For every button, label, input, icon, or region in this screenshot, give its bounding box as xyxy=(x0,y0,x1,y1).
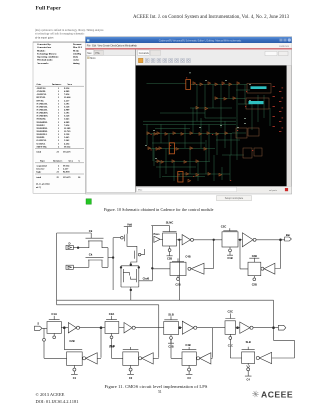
latch U20 xyxy=(182,352,196,366)
svg-text:Type: Type xyxy=(40,160,45,163)
clock port U16 xyxy=(71,365,78,374)
node row2 a xyxy=(100,327,102,329)
clock label C1 xyxy=(73,376,77,380)
clock label C3 xyxy=(187,376,191,380)
clock port U12 xyxy=(168,335,174,344)
svg-text:st technology cell info for ma: st technology cell info for mapping sche… xyxy=(35,32,85,35)
latch U18 xyxy=(123,352,139,366)
transistor M2 pass gate xyxy=(86,257,104,267)
wire U20 out up xyxy=(171,339,182,358)
svg-text:ACEEE: ACEEE xyxy=(261,389,293,399)
wire U1 out down xyxy=(178,240,180,300)
svg-text:total: total xyxy=(37,151,42,154)
svg-text:Gate: Gate xyxy=(37,83,42,86)
transistor M6 cross right xyxy=(136,268,138,283)
clock port U6 xyxy=(253,276,256,281)
svg-text:Figure. 10 Schematic obtained: Figure. 10 Schematic obtained in Cadence… xyxy=(104,207,214,212)
inverter U2 xyxy=(182,235,193,245)
wire Ck gate stem xyxy=(90,233,92,238)
wire cross coupling xyxy=(123,272,136,279)
block label C2C xyxy=(221,224,227,228)
svg-text:Full Paper: Full Paper xyxy=(36,6,62,12)
clock label C2 xyxy=(129,376,133,380)
latch U6 xyxy=(248,262,261,276)
svg-text:C1: C1 xyxy=(73,376,77,380)
inverter U19 xyxy=(139,353,154,364)
svg-text:SLB: SLB xyxy=(110,344,115,348)
svg-text:Cadence(R) Virtuoso(R) Schemat: Cadence(R) Virtuoso(R) Schematic Editor … xyxy=(159,40,242,43)
block label C1A xyxy=(51,312,57,316)
clock port U14 xyxy=(229,334,232,339)
svg-text:ACEEE Int. J. on Control Syste: ACEEE Int. J. on Control System and Inst… xyxy=(133,15,290,20)
svg-text:SLB: SLB xyxy=(168,313,174,317)
svg-text:Area: Area xyxy=(68,160,74,163)
net label C2B2 xyxy=(69,339,74,343)
clock port U10 xyxy=(110,333,113,338)
svg-text:© 2013 ACEEE: © 2013 ACEEE xyxy=(36,392,65,397)
wire U17 in xyxy=(97,357,101,359)
transistor M5 cross left xyxy=(121,268,123,283)
wire U15 to output xyxy=(253,327,278,329)
wire M3 gate xyxy=(113,237,120,239)
svg-text:D: D xyxy=(68,242,70,246)
svg-text:C3: C3 xyxy=(187,376,191,380)
gate bubble M4 xyxy=(138,253,141,256)
clock port U3 xyxy=(227,247,233,255)
svg-text:Bar: Bar xyxy=(286,233,290,237)
svg-text:39.114: 39.114 xyxy=(64,145,71,148)
inverter U9 xyxy=(68,323,79,333)
node mid row1 xyxy=(213,239,215,241)
svg-text:total: total xyxy=(37,176,42,179)
clock port U8 xyxy=(53,333,56,338)
wire top rail to U1 xyxy=(151,226,169,232)
svg-text:C2C: C2C xyxy=(221,224,227,228)
wire U12 to U13 xyxy=(178,327,182,329)
wire right rail CkB xyxy=(139,226,153,281)
input pin Pass xyxy=(154,236,160,242)
svg-text:timing: timing xyxy=(73,62,80,65)
wire bus B xyxy=(57,305,159,358)
node output row1 xyxy=(280,239,282,241)
svg-text:logic: logic xyxy=(37,171,42,174)
block label SLNC xyxy=(166,221,174,225)
svg-text:Pass: Pass xyxy=(153,232,160,236)
latch U10 xyxy=(105,322,119,334)
svg-text:C2C: C2C xyxy=(227,310,233,314)
node U1 out xyxy=(178,239,180,241)
block label C2C2 xyxy=(227,310,233,314)
block label C3B xyxy=(252,254,257,258)
node cross right xyxy=(138,267,140,269)
clock port U20 xyxy=(186,365,193,374)
pin label S xyxy=(37,321,39,325)
latch U1 xyxy=(163,233,177,246)
svg-text:Area mode:: Area mode: xyxy=(37,62,49,65)
node U3 out xyxy=(239,239,241,241)
clock port U1 xyxy=(167,246,173,256)
node junction D xyxy=(77,247,79,249)
input pin E xyxy=(66,265,73,269)
node storage junction xyxy=(130,264,132,266)
wire E to M2 xyxy=(73,266,89,268)
svg-text:ui_re_pt_time: ui_re_pt_time xyxy=(36,182,50,185)
node label CkB xyxy=(89,253,93,257)
output pin Bar xyxy=(285,237,292,241)
clock bar U16 xyxy=(64,349,82,351)
svg-text:C2: C2 xyxy=(129,376,133,380)
latch U16 xyxy=(67,352,83,366)
clock bar U14 xyxy=(225,314,235,319)
svg-text:C2A: C2A xyxy=(109,312,115,316)
clock bar U12 xyxy=(164,316,177,320)
svg-text:C2B: C2B xyxy=(167,257,172,261)
svg-text:Comands: Comands xyxy=(139,53,150,55)
inverter U15 xyxy=(240,322,253,333)
latch U7L xyxy=(170,262,186,275)
wire M1 M2 join xyxy=(102,248,113,268)
clock label C4 xyxy=(247,378,251,382)
wire M3 drain xyxy=(127,242,137,250)
wire U4 to output xyxy=(256,239,285,241)
wire U7L to latch xyxy=(152,268,170,270)
clock label C2B9 xyxy=(175,282,180,286)
gate bubble M3 xyxy=(121,236,124,239)
clock bar U6 xyxy=(249,258,259,262)
inverter U17 xyxy=(83,353,98,364)
svg-text:cadence: cadence xyxy=(279,44,290,48)
svg-text:DOI: 01.IJCSI.4.2.1181: DOI: 01.IJCSI.4.2.1181 xyxy=(36,399,79,404)
svg-text:S: S xyxy=(37,321,39,325)
svg-text:C4: C4 xyxy=(247,378,251,382)
clock label C1B2 xyxy=(109,344,114,348)
clock label C1C xyxy=(228,343,233,347)
clock port U7L xyxy=(177,276,180,281)
transistor M3 pmos xyxy=(125,234,127,242)
clock port U18 xyxy=(127,365,134,374)
node feedback junction xyxy=(151,267,153,269)
svg-text:ui-?[: ui-?[ xyxy=(36,186,41,189)
wire tap to row2 xyxy=(43,328,45,338)
output pin Q xyxy=(278,325,285,330)
svg-text:135.471: 135.471 xyxy=(63,176,71,179)
clock label C2B8 xyxy=(252,283,257,287)
svg-text:sel parts: sel parts xyxy=(269,189,277,192)
wire U6 to node xyxy=(240,240,248,269)
svg-text:Edit: Edit xyxy=(92,45,96,48)
latch U3 xyxy=(222,232,238,247)
power Vdd bar xyxy=(124,227,132,234)
pin label Pass xyxy=(153,232,160,236)
svg-text:C4B: C4B xyxy=(185,343,190,347)
svg-text:Ck: Ck xyxy=(89,229,93,233)
wire U9 to U10 xyxy=(80,327,105,329)
svg-text:C2B: C2B xyxy=(175,282,180,286)
wire D to M1 xyxy=(73,247,89,249)
wire S to U8 xyxy=(42,327,47,329)
latch U8 xyxy=(47,322,61,334)
wire cross pair top xyxy=(121,265,139,268)
inverter U21 xyxy=(197,353,211,364)
svg-text:SLNC: SLNC xyxy=(166,221,174,225)
wire row2 feedback hook xyxy=(272,328,295,358)
clock port U22 xyxy=(245,363,252,376)
svg-text:C4B: C4B xyxy=(185,254,190,258)
node cross bottom xyxy=(130,289,132,291)
svg-text:Instances: Instances xyxy=(52,83,61,86)
input pin S xyxy=(35,326,43,330)
node cross left xyxy=(120,267,122,269)
svg-text:SDFFTXL: SDFFTXL xyxy=(37,145,48,148)
clock label C2B3 xyxy=(168,345,173,349)
clock bar U18 xyxy=(123,347,139,350)
wire U3 to U4 xyxy=(238,239,242,241)
block label C2A xyxy=(109,312,115,316)
svg-text:SLB: SLB xyxy=(246,340,251,344)
inverter U4 xyxy=(242,233,256,247)
svg-text:Ck: Ck xyxy=(89,253,93,257)
wire U21 in xyxy=(211,357,213,359)
pin label Bar xyxy=(286,233,290,237)
latch U22 xyxy=(242,352,255,364)
net label SLB3 xyxy=(246,340,251,344)
svg-text:Help: Help xyxy=(132,46,137,48)
clock bar U20 xyxy=(182,347,196,350)
svg-text:Vdd: Vdd xyxy=(127,222,132,226)
inverter U13 xyxy=(182,321,197,334)
input pin D xyxy=(66,245,73,249)
wire U11 to U12 xyxy=(135,327,163,329)
wire input rail xyxy=(112,238,114,290)
inverter U23 xyxy=(256,352,271,363)
wire U2 to U3 xyxy=(194,239,223,241)
svg-text:PSL: PSL xyxy=(95,52,100,55)
wire U10 to U11 xyxy=(119,327,124,329)
svg-text:Setup incomplete: Setup incomplete xyxy=(225,197,244,200)
svg-text:Area: Area xyxy=(67,83,73,86)
pin label D xyxy=(68,242,70,246)
block label C4B2 xyxy=(185,254,190,258)
net label C4B xyxy=(185,343,190,347)
clock bar U3 xyxy=(223,228,237,231)
inverter U7 xyxy=(188,263,204,274)
net label CkvB xyxy=(143,277,150,281)
clock bar U10 xyxy=(106,316,117,320)
block label SLB xyxy=(168,313,174,317)
node rail junction xyxy=(112,257,114,259)
power label Vdd xyxy=(127,222,132,226)
svg-text:MAin: MAin xyxy=(90,57,96,60)
wire output feedback down xyxy=(275,240,281,269)
wire bus A xyxy=(57,300,274,328)
wire U22 out up xyxy=(230,339,241,358)
clock bar U8 xyxy=(49,316,60,320)
wire U8 to U9 xyxy=(61,327,68,329)
svg-text:C2B: C2B xyxy=(69,339,74,343)
node U12 out xyxy=(179,327,181,329)
wire M4 gate stub xyxy=(141,249,145,255)
wire Pass to U1 xyxy=(160,238,162,240)
clock bar U22 xyxy=(242,347,255,350)
wire M4 drain to node xyxy=(131,260,137,265)
wire U14 to U15 xyxy=(236,327,240,329)
node output row2 xyxy=(273,327,275,329)
node U8 out xyxy=(63,327,65,329)
svg-text:51: 51 xyxy=(158,390,162,394)
latch U14 xyxy=(225,321,236,335)
node U14 out xyxy=(237,327,239,329)
transistor M1 pass gate xyxy=(86,238,104,248)
wire U13 to U14 xyxy=(197,327,225,329)
svg-text:CkvB: CkvB xyxy=(143,277,150,281)
inverter U5 xyxy=(261,263,275,274)
svg-text:ui-in report gates: ui-in report gates xyxy=(35,37,53,40)
node label Ck xyxy=(89,229,93,233)
latch U12 xyxy=(164,322,179,335)
clock bar U7L xyxy=(172,258,184,261)
clock label C2B xyxy=(167,257,172,261)
wire row2 tap down xyxy=(212,328,214,358)
wire U6 chain left xyxy=(204,268,214,270)
wire U19 in xyxy=(153,357,159,359)
svg-text:C1B: C1B xyxy=(227,256,232,260)
clock label C1B xyxy=(227,256,232,260)
wire mid row1 down xyxy=(213,240,215,268)
inverter U11 xyxy=(124,323,135,333)
svg-text:135.471: 135.471 xyxy=(63,151,71,154)
wire cross pair bottom xyxy=(121,283,139,300)
wire frame left rail xyxy=(57,233,92,305)
wire U1 to U2 xyxy=(177,239,183,241)
wire U8 out down xyxy=(63,328,65,350)
svg-text:94.038: 94.038 xyxy=(63,171,70,174)
svg-text:Figure 11. CMOS circuit level: Figure 11. CMOS circuit level implementa… xyxy=(105,384,208,389)
svg-text:C2B: C2B xyxy=(252,283,257,287)
transistor M4 pmos xyxy=(135,250,137,260)
svg-text:C1A: C1A xyxy=(51,312,57,316)
tap circle U16 xyxy=(43,338,46,341)
svg-text:C3B: C3B xyxy=(252,254,257,258)
wire U16 out up xyxy=(44,341,67,358)
clock bar U1 xyxy=(163,231,177,233)
net label SLB2 xyxy=(110,344,115,348)
wire U18 out up xyxy=(112,339,123,359)
svg-text:Instances: Instances xyxy=(53,160,62,163)
wire node a down xyxy=(100,328,102,358)
